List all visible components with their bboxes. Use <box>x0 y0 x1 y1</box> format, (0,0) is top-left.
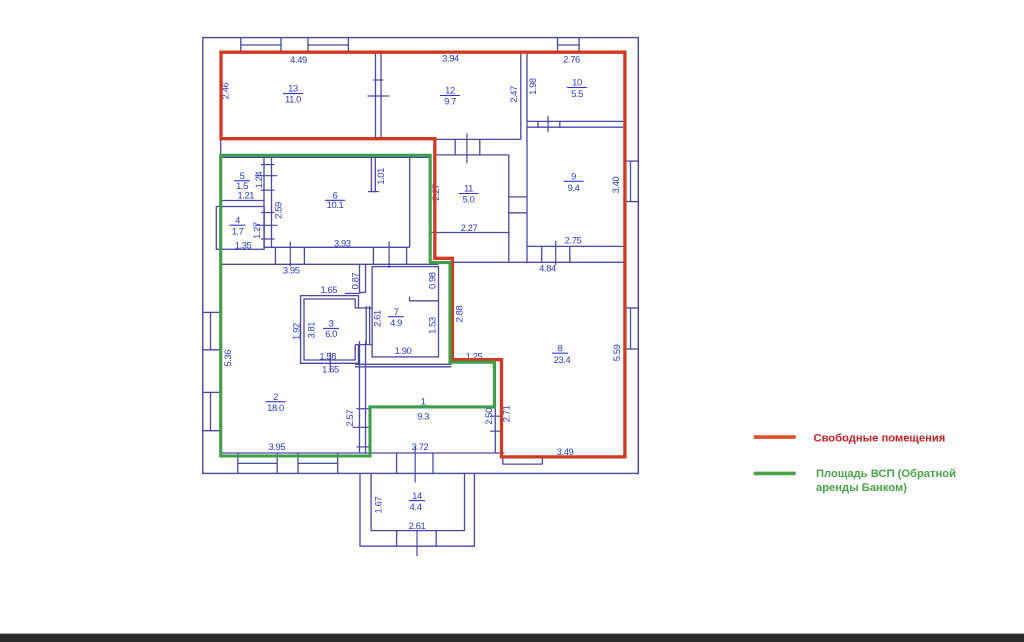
svg-text:3.40: 3.40 <box>610 176 621 193</box>
ticks on wall rooms 2-1 <box>353 409 371 447</box>
wall between room 1 and room 8 <box>494 362 496 453</box>
svg-text:7: 7 <box>394 306 399 317</box>
svg-text:10: 10 <box>572 77 582 88</box>
svg-text:1: 1 <box>421 395 426 406</box>
door jambs corridor left <box>275 247 304 264</box>
door leaf tick corridor right <box>388 242 390 269</box>
svg-text:1.53: 1.53 <box>426 317 437 334</box>
ticks on wall of rooms 5-4 <box>255 165 278 239</box>
room 7 label <box>388 306 404 328</box>
door jambs hall <box>455 139 480 155</box>
svg-text:аренды Банком): аренды Банком) <box>816 482 907 494</box>
window top-right C <box>558 38 580 52</box>
door leaf tick hall <box>466 133 468 163</box>
svg-text:9.7: 9.7 <box>444 95 456 106</box>
svg-text:0.87: 0.87 <box>349 272 360 289</box>
svg-text:Свободные помещения: Свободные помещения <box>814 432 946 444</box>
room 11 label <box>459 183 479 205</box>
svg-text:9.3: 9.3 <box>417 410 429 421</box>
wall bottom inner face <box>219 452 504 454</box>
svg-text:4: 4 <box>235 214 240 225</box>
svg-text:3: 3 <box>329 318 334 329</box>
wall room 1 bottom inner <box>370 452 372 454</box>
wall left inner face <box>220 52 222 456</box>
svg-text:2.50: 2.50 <box>483 408 494 425</box>
window bottom W5 <box>238 453 277 473</box>
svg-text:3.95: 3.95 <box>268 441 285 452</box>
svg-text:1.65: 1.65 <box>320 284 337 295</box>
svg-text:2.75: 2.75 <box>565 235 582 246</box>
door jambs corridor right <box>373 247 406 264</box>
window left W1 <box>203 312 221 349</box>
wall jamb right of room 3 door <box>366 306 369 345</box>
ticks on wall rooms 1-8 <box>490 416 501 431</box>
svg-text:0.98: 0.98 <box>426 272 437 289</box>
shelf in room 7 <box>410 297 439 301</box>
room 12 label <box>440 84 460 106</box>
red outline free premises <box>221 52 625 457</box>
svg-text:3.81: 3.81 <box>306 322 317 339</box>
room 7 box <box>372 267 438 357</box>
svg-text:8: 8 <box>558 342 563 353</box>
door jambs room 9 <box>542 246 570 262</box>
svg-text:3.49: 3.49 <box>557 446 574 457</box>
porch step below room 8 <box>503 458 543 464</box>
door leaf tick room 9 <box>555 241 557 265</box>
room 3 door ticks <box>355 308 372 345</box>
svg-text:1.92: 1.92 <box>290 323 301 340</box>
svg-text:1.67: 1.67 <box>373 497 384 514</box>
wall room 6 bottom <box>264 246 410 248</box>
window right W4 <box>625 308 638 349</box>
door jambs room 10 <box>538 121 560 127</box>
svg-text:2.47: 2.47 <box>508 86 519 103</box>
room 14 label <box>409 490 425 512</box>
svg-text:5: 5 <box>240 170 245 181</box>
wall room 6 right side <box>409 155 411 247</box>
wall right inner face <box>624 52 626 457</box>
svg-text:4.84: 4.84 <box>539 262 556 273</box>
wall below room 7 <box>355 364 451 367</box>
wall room 5 bottom <box>221 200 264 202</box>
tick at vestibule 2.61 <box>416 531 418 556</box>
wall top of rooms 5-6 under green <box>221 156 431 158</box>
wall between rooms 12 and 10 <box>521 52 527 262</box>
svg-text:5.36: 5.36 <box>222 350 233 367</box>
room 8 label <box>552 342 571 365</box>
green outline VSP area <box>221 155 495 456</box>
door leaf tick corridor left <box>289 242 291 267</box>
wall room 11 bottom <box>431 232 510 234</box>
svg-text:3.94: 3.94 <box>442 53 459 64</box>
svg-text:23.4: 23.4 <box>554 354 571 365</box>
svg-text:1.98: 1.98 <box>527 78 538 95</box>
window right W3 <box>625 161 638 202</box>
duct opening ticks between rooms 11 and 9 <box>509 197 527 213</box>
window top-left B <box>308 38 348 52</box>
svg-text:1.7: 1.7 <box>232 225 244 236</box>
svg-text:14: 14 <box>412 490 422 501</box>
svg-text:4.49: 4.49 <box>290 54 307 65</box>
svg-text:2.57: 2.57 <box>344 410 355 427</box>
tick on wall 13|12 <box>373 79 384 81</box>
wall room 11 right side <box>508 155 510 262</box>
room 13 label <box>283 83 303 105</box>
svg-text:13: 13 <box>288 83 298 94</box>
svg-text:11.0: 11.0 <box>285 94 301 105</box>
svg-text:2.59: 2.59 <box>273 202 284 219</box>
tick at stub bottom <box>368 191 379 193</box>
svg-text:9: 9 <box>571 170 576 181</box>
svg-text:18.0: 18.0 <box>267 402 284 413</box>
svg-text:2.88: 2.88 <box>453 305 464 322</box>
window left W2 <box>203 392 221 430</box>
door leaf tick room 10 <box>547 116 549 132</box>
tick below room 3 <box>329 353 331 373</box>
svg-text:9.4: 9.4 <box>568 182 580 193</box>
cross tick on wall 13|12 <box>368 95 390 97</box>
legend red line <box>754 435 796 439</box>
svg-text:4.9: 4.9 <box>390 317 402 328</box>
wall between rooms 2 and 1 <box>360 341 366 453</box>
svg-text:3.95: 3.95 <box>283 265 300 276</box>
wall below room 10 <box>527 121 623 127</box>
svg-text:3.72: 3.72 <box>412 441 429 452</box>
svg-text:2.61: 2.61 <box>409 520 426 531</box>
room 6 label <box>325 189 345 209</box>
wall between rooms 13 and 12 <box>376 52 382 139</box>
room 3 label <box>323 318 339 340</box>
vestibule door jambs <box>397 531 437 547</box>
tick at 0.87 wall <box>345 292 361 294</box>
room 5 label <box>234 170 250 191</box>
room 3 inner box <box>304 299 355 360</box>
wall 0.87 segment <box>360 264 366 292</box>
room 3 outer box <box>301 296 359 364</box>
room 4 label <box>230 214 246 236</box>
svg-text:2.76: 2.76 <box>563 53 580 64</box>
bottom dark bar <box>0 634 1024 642</box>
wall hall top line <box>435 138 521 140</box>
wall top inner face <box>221 51 625 53</box>
wall corridor bottom <box>221 263 439 265</box>
svg-text:2.61: 2.61 <box>371 310 382 327</box>
wall corridor 4.84 <box>431 261 625 263</box>
wall outer boundary <box>203 38 639 474</box>
svg-text:1.90: 1.90 <box>395 345 412 356</box>
svg-text:12: 12 <box>445 84 455 95</box>
room 4 closet box <box>216 207 264 250</box>
wall stub in room 6 <box>371 157 375 192</box>
svg-text:11: 11 <box>464 183 473 194</box>
window top-left A <box>241 38 281 52</box>
svg-text:1.58: 1.58 <box>319 351 336 362</box>
wall right of rooms 5 and 4 <box>264 155 272 247</box>
wall room 9 bottom <box>526 245 623 247</box>
svg-text:3.93: 3.93 <box>334 238 351 249</box>
svg-text:1.35: 1.35 <box>235 240 252 251</box>
wall hall lower line <box>435 154 509 156</box>
svg-text:4.4: 4.4 <box>410 501 422 512</box>
svg-text:1.65: 1.65 <box>322 364 339 375</box>
room 9 label <box>564 170 584 193</box>
tick at 3.72 <box>414 446 416 483</box>
svg-text:10.1: 10.1 <box>327 199 344 210</box>
svg-text:5.5: 5.5 <box>571 88 583 99</box>
window bottom W6 <box>298 453 338 473</box>
wall room 11 left side <box>430 155 432 233</box>
vestibule outer walls <box>360 473 474 546</box>
svg-text:2.27: 2.27 <box>461 222 478 233</box>
svg-text:5.0: 5.0 <box>463 193 475 204</box>
room 10 label <box>567 77 587 99</box>
legend green line <box>754 472 796 476</box>
room 1 label <box>415 395 431 421</box>
svg-text:5.59: 5.59 <box>611 344 622 361</box>
svg-text:1.01: 1.01 <box>375 168 386 185</box>
vestibule inner walls <box>371 473 464 530</box>
svg-text:1.27: 1.27 <box>251 222 262 239</box>
door opening bottom (room 1 to vestibule) <box>397 453 433 473</box>
svg-text:6.0: 6.0 <box>325 328 337 339</box>
svg-text:Площадь ВСП (Обратной: Площадь ВСП (Обратной <box>816 468 956 480</box>
svg-text:1.21: 1.21 <box>237 189 254 200</box>
svg-text:1.24: 1.24 <box>253 171 264 188</box>
room 2 label <box>266 391 286 413</box>
svg-text:2: 2 <box>273 391 278 402</box>
